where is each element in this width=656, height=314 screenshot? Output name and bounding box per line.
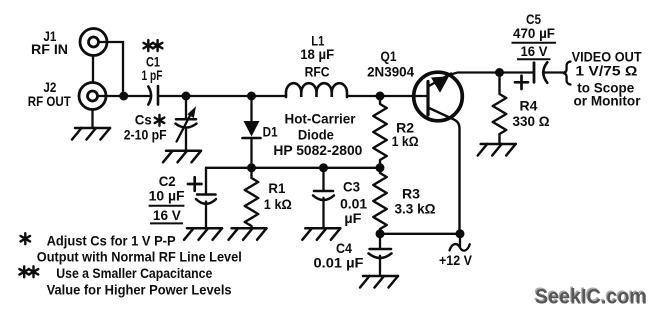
node R3/C4 — [376, 229, 385, 238]
transistor Q1 — [414, 72, 463, 234]
svg-text:1 pF: 1 pF — [142, 67, 163, 83]
asterisk note 1 — [21, 233, 31, 244]
ground (C4) — [360, 276, 398, 288]
svg-text:R3: R3 — [402, 186, 420, 202]
svg-text:470 µF: 470 µF — [513, 25, 555, 41]
ground (R4) — [478, 144, 516, 156]
node D1 tap — [247, 92, 256, 101]
svg-text:+12 V: +12 V — [439, 252, 473, 268]
wire J2 to C1 — [98, 95, 149, 97]
wire J1 to bus — [99, 42, 123, 93]
svg-text:Use a Smaller Capacitance: Use a Smaller Capacitance — [56, 265, 212, 281]
node R4/C5 — [495, 68, 504, 77]
wire J1 shell to J2 shell — [92, 56, 94, 83]
svg-text:R1: R1 — [268, 180, 285, 196]
svg-text:2-10 pF: 2-10 pF — [124, 127, 167, 143]
svg-text:16 V: 16 V — [153, 207, 182, 223]
connector J1 (BNC) — [80, 29, 107, 56]
svg-text:C3: C3 — [343, 179, 360, 195]
capacitor C3 — [313, 168, 334, 229]
svg-text:Cs: Cs — [135, 112, 152, 128]
svg-text:D1: D1 — [263, 123, 278, 139]
node J1/J2 junction — [119, 92, 128, 101]
svg-text:µF: µF — [344, 210, 361, 226]
underline 16V (C2) — [150, 222, 183, 224]
svg-text:RF IN: RF IN — [31, 41, 68, 57]
node R2/R3 — [376, 163, 385, 172]
resistor R3 — [373, 168, 387, 234]
asterisk pair above C1 — [144, 40, 154, 51]
svg-text:1 V/75 Ω: 1 V/75 Ω — [575, 62, 637, 78]
svg-text:2N3904: 2N3904 — [367, 64, 414, 80]
svg-text:Value for Higher Power Levels: Value for Higher Power Levels — [47, 281, 232, 297]
node L1/R2/base — [376, 92, 385, 101]
svg-text:0.01 µF: 0.01 µF — [314, 255, 364, 271]
svg-text:1 kΩ: 1 kΩ — [264, 196, 292, 212]
inductor L1 — [286, 83, 347, 97]
svg-text:18 µF: 18 µF — [300, 46, 334, 62]
lower bus wire — [206, 167, 380, 169]
svg-text:RFC: RFC — [305, 64, 330, 80]
svg-text:16 V: 16 V — [521, 43, 549, 59]
wire C1 to L1 — [159, 95, 287, 97]
underline 16V (C5) — [517, 58, 551, 60]
ground (J2) — [72, 128, 110, 140]
wire C5 to output — [543, 71, 566, 73]
top output wire — [450, 73, 535, 75]
capacitor C2 (electrolytic) — [188, 168, 216, 229]
output brace — [563, 62, 571, 85]
svg-text:Adjust Cs for 1 V P-P: Adjust Cs for 1 V P-P — [47, 232, 176, 248]
resistor R2 — [373, 96, 387, 168]
node C3 — [319, 163, 328, 172]
svg-text:Output with Normal RF Line Lev: Output with Normal RF Line Level — [37, 248, 242, 264]
asterisk pair note 2 — [19, 266, 29, 277]
svg-text:Q1: Q1 — [381, 48, 397, 64]
svg-text:RF OUT: RF OUT — [28, 93, 71, 109]
resistor R4 — [493, 73, 507, 145]
capacitor C5 (electrolytic) — [515, 62, 547, 89]
svg-text:1 kΩ: 1 kΩ — [392, 133, 419, 149]
svg-text:SeekIC.com: SeekIC.com — [535, 286, 647, 309]
asterisk after Cs — [155, 115, 165, 126]
wire J2 to ground — [91, 110, 93, 128]
ground (C3) — [302, 228, 340, 240]
wire R3 to +12V — [380, 233, 460, 235]
wire L1 to Q1 base — [347, 95, 428, 97]
ground (R1) — [229, 228, 267, 240]
underline 10uF — [149, 205, 185, 207]
node D1/R1 — [247, 163, 256, 172]
ground (C2) — [184, 228, 222, 240]
+12V feed squiggle — [450, 234, 470, 251]
underline 470uF — [512, 42, 557, 44]
trimmer capacitor Cs — [176, 96, 197, 151]
svg-text:Hot-Carrier: Hot-Carrier — [285, 111, 357, 127]
svg-text:3.3 kΩ: 3.3 kΩ — [395, 201, 436, 217]
node Cs tap — [182, 92, 191, 101]
svg-text:330 Ω: 330 Ω — [513, 113, 550, 129]
capacitor C1 — [148, 86, 158, 105]
resistor R1 — [245, 168, 259, 229]
node +12V/emitter — [456, 229, 465, 238]
diode D1 — [243, 96, 261, 168]
svg-text:R4: R4 — [520, 97, 538, 113]
ground (Cs) — [163, 151, 201, 163]
svg-text:or Monitor: or Monitor — [574, 93, 642, 109]
svg-text:HP 5082-2800: HP 5082-2800 — [273, 142, 362, 158]
capacitor C4 — [369, 234, 392, 276]
svg-text:Diode: Diode — [298, 126, 334, 142]
connector J2 (BNC) — [79, 83, 106, 110]
svg-text:10 µF: 10 µF — [149, 187, 185, 203]
